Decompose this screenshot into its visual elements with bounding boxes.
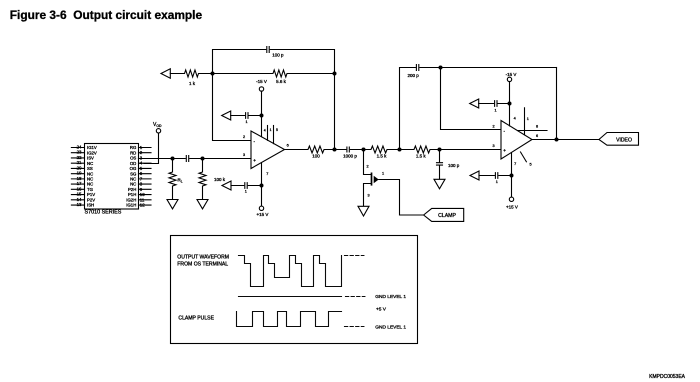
svg-text:NC: NC — [87, 182, 93, 187]
junction on U2 +15V wire — [510, 174, 514, 178]
capacitor 1 bypass U1 top — [246, 113, 248, 119]
wire U2 pin 7 to +15V — [511, 153, 513, 198]
svg-text:16: 16 — [77, 186, 82, 191]
IC left pin names — [87, 145, 97, 208]
wire arrow to U2 bottom bypass cap — [479, 175, 512, 177]
svg-text:VIDEO: VIDEO — [616, 137, 632, 143]
net VIDEO tag — [599, 133, 639, 146]
svg-text:3: 3 — [492, 144, 494, 148]
svg-text:100 k: 100 k — [214, 177, 226, 182]
op-amp U1 pin 5 tick — [273, 126, 275, 144]
junction at 100p shunt — [438, 148, 442, 152]
svg-text:1: 1 — [270, 128, 272, 132]
svg-text:2: 2 — [243, 135, 245, 139]
wire VOD to OD pin — [144, 133, 159, 164]
transistor Q1 arrow — [374, 176, 379, 184]
junction on OS line at 100k — [201, 157, 205, 161]
svg-text:1: 1 — [245, 190, 247, 194]
capacitor coupling on OS line — [186, 156, 188, 162]
wire 200p feedback left vertical — [400, 68, 557, 150]
wire -15V to U2 pin 4 — [509, 82, 511, 126]
svg-text:+: + — [253, 158, 256, 163]
junction at U2 output — [555, 138, 559, 142]
svg-text:4: 4 — [514, 117, 516, 121]
svg-text:5: 5 — [530, 163, 532, 167]
svg-text:100 p: 100 p — [448, 163, 460, 168]
junction on -15V wire — [260, 114, 264, 118]
wire to op-amp U2 pin 3 — [440, 149, 502, 151]
ground below Q1 source — [358, 206, 369, 216]
svg-text:100: 100 — [312, 154, 320, 159]
svg-text:+15 V: +15 V — [257, 212, 269, 217]
junction 200p loop to U2 pin 2 — [439, 66, 443, 70]
clamp pulse trace — [237, 312, 342, 327]
resistor 1.5k second — [400, 146, 440, 153]
capacitor 1 bypass U1 bottom — [245, 183, 247, 189]
OS waveform continuation dashes — [345, 255, 364, 257]
ground below 100p shunt — [434, 179, 445, 189]
svg-text:6: 6 — [536, 134, 538, 138]
op-amp U2 pin 8 stub — [518, 130, 547, 132]
ground arrow for U2 top bypass — [470, 99, 479, 108]
svg-text:6: 6 — [287, 144, 289, 148]
svg-text:+15 V: +15 V — [506, 204, 518, 209]
wire from feedback node to U1 pin 2 — [213, 74, 252, 141]
terminal +15V op-amp U2 — [509, 197, 513, 201]
svg-text:CLAMP PULSE: CLAMP PULSE — [178, 315, 214, 321]
transistor Q1 clamp FET gate wire — [364, 150, 371, 175]
svg-text:VOD: VOD — [153, 122, 162, 128]
svg-text:OUTPUT WAVEFORM: OUTPUT WAVEFORM — [177, 255, 229, 261]
svg-text:100 p: 100 p — [272, 53, 284, 58]
svg-text:1: 1 — [495, 109, 497, 113]
transistor Q1 source wire — [364, 184, 372, 207]
op-amp U1 — [251, 131, 285, 169]
ground below 100k resistor — [197, 200, 208, 209]
clamp pulse continuation dashes — [345, 326, 364, 328]
svg-text:8: 8 — [536, 124, 538, 128]
junction node feedback right — [333, 72, 337, 76]
junction at FET gate node — [362, 148, 366, 152]
svg-text:1.5 k: 1.5 k — [377, 154, 388, 159]
wire U2 output to VIDEO — [532, 139, 599, 141]
svg-text:4: 4 — [264, 129, 266, 133]
svg-text:23: 23 — [77, 150, 82, 155]
svg-text:1.5 k: 1.5 k — [416, 154, 427, 159]
svg-text:RD: RD — [130, 150, 136, 155]
svg-text:SS: SS — [87, 166, 93, 171]
OS output waveform trace — [239, 256, 342, 287]
resistor 100 — [308, 146, 335, 153]
svg-text:1: 1 — [496, 180, 498, 184]
GND level line dashes — [346, 296, 365, 298]
resistor 5.6k — [213, 70, 335, 77]
GND level line upper — [239, 296, 342, 298]
svg-text:1: 1 — [245, 120, 247, 124]
svg-text:2: 2 — [492, 124, 494, 128]
op-amp U2 pin 1 tick — [524, 108, 526, 135]
svg-text:OG: OG — [130, 166, 137, 171]
svg-text:1000 p: 1000 p — [343, 154, 357, 159]
op-amp U2 — [501, 121, 532, 160]
svg-text:S7010 SERIES: S7010 SERIES — [85, 210, 122, 216]
wire U1 output to 100 resistor — [285, 149, 308, 151]
wire -15V to U1 top — [261, 91, 263, 136]
svg-text:2: 2 — [367, 165, 369, 169]
svg-text:IG2V: IG2V — [87, 150, 97, 155]
svg-text:5: 5 — [276, 128, 278, 132]
svg-text:13: 13 — [77, 202, 82, 207]
capacitor 200p — [416, 65, 418, 71]
svg-text:1: 1 — [527, 117, 529, 121]
op-amp U1 pin 1 tick — [267, 126, 269, 141]
svg-text:GND LEVEL 1: GND LEVEL 1 — [375, 294, 406, 300]
wire arrow to bypass cap bottom — [231, 185, 262, 187]
IC left pin stubs 24-13 — [71, 148, 84, 206]
svg-text:5.6 k: 5.6 k — [276, 79, 287, 84]
wire output feedback vertical — [556, 68, 558, 140]
wire OS signal line to op-amp U1 pin 3 — [139, 158, 252, 160]
connector arrow at 1k input — [161, 69, 170, 78]
transistor Q1 body bar — [371, 173, 373, 186]
svg-text:+: + — [503, 148, 506, 153]
junction node feedback left — [211, 72, 215, 76]
ground arrow for U2 bottom bypass — [470, 171, 479, 180]
svg-text:-15 V: -15 V — [256, 79, 267, 84]
ground below RL — [167, 200, 178, 209]
svg-text:-15 V: -15 V — [506, 72, 517, 77]
IC right pin stubs 1-12 — [139, 148, 152, 206]
junction at 200p tap — [398, 148, 402, 152]
wire U1 pin 7 to +15V — [261, 163, 263, 206]
resistor 1.5k first — [364, 146, 400, 153]
svg-text:IG1H: IG1H — [126, 203, 136, 208]
wire arrow to bypass cap — [231, 115, 262, 117]
wire to coupling cap 1000p — [335, 149, 364, 151]
svg-text:NC: NC — [130, 182, 136, 187]
wire feedback top loop — [213, 50, 335, 74]
wire Q1 drain to CLAMP — [379, 180, 424, 216]
capacitor 1 bypass U2 top — [495, 101, 497, 107]
node VOD terminal — [156, 129, 160, 133]
svg-text:3: 3 — [243, 153, 245, 157]
net CLAMP tag — [424, 208, 464, 221]
svg-text:20: 20 — [77, 165, 82, 170]
svg-text:KMPDC0053EA: KMPDC0053EA — [649, 374, 686, 380]
svg-text:7: 7 — [514, 162, 516, 166]
svg-text:200 p: 200 p — [408, 73, 420, 78]
resistor RL — [169, 159, 176, 200]
wire to U2 pin 2 — [441, 68, 502, 130]
IC S7010 SERIES body — [85, 144, 139, 210]
svg-text:CLAMP: CLAMP — [438, 213, 456, 219]
junction on +15V wire — [260, 184, 264, 188]
capacitor 1 bypass U2 bottom — [495, 173, 497, 179]
svg-text:RL: RL — [178, 178, 183, 184]
svg-text:1: 1 — [382, 172, 384, 176]
svg-text:3: 3 — [367, 193, 369, 197]
svg-text:FROM OS TERMINAL: FROM OS TERMINAL — [177, 262, 228, 268]
wire feedback right vertical to signal line — [334, 74, 336, 150]
junction at feedback tap — [333, 148, 337, 152]
wire arrow to U2 top bypass cap — [479, 103, 510, 105]
svg-text:ISH: ISH — [87, 203, 94, 208]
svg-text:1 k: 1 k — [189, 81, 196, 86]
ground arrow for U1 top bypass — [222, 111, 231, 120]
svg-text:+5 V: +5 V — [376, 306, 387, 312]
ground arrow for U1 bottom bypass — [222, 181, 231, 190]
capacitor 100p feedback — [267, 47, 269, 53]
junction on OS line at RL — [171, 157, 175, 161]
terminal -15V op-amp U2 — [507, 77, 511, 81]
capacitor 100p shunt — [437, 150, 443, 180]
svg-text:12: 12 — [140, 203, 145, 208]
IC left pin numbers 24-13 — [77, 145, 82, 208]
terminal +15V op-amp U1 — [259, 206, 263, 210]
op-amp U2 pin 5 stub — [521, 152, 527, 162]
svg-text:GND LEVEL 1: GND LEVEL 1 — [375, 324, 406, 330]
resistor 100k to ground — [199, 159, 206, 200]
IC right pin names — [126, 145, 137, 208]
capacitor 1000p — [347, 147, 349, 152]
svg-text:7: 7 — [266, 172, 268, 176]
waveform note box — [171, 236, 418, 344]
junction on U2 -15V wire — [508, 102, 512, 106]
svg-text:Figure 3-6 Output circuit exa: Figure 3-6 Output circuit example — [10, 8, 203, 22]
IC right pin numbers 1-12 — [140, 145, 145, 208]
resistor 1k — [170, 70, 212, 77]
terminal -15V op-amp U1 — [259, 87, 263, 91]
